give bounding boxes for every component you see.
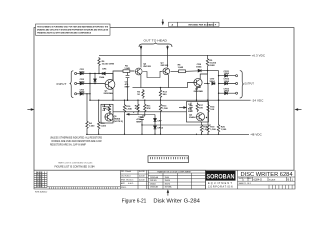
- diode CR9: [212, 82, 215, 85]
- svg-text:2N1305: 2N1305: [150, 180, 157, 182]
- wire CR7 CR14 column: [154, 115, 156, 135]
- wire input row1 to collector: [90, 74, 113, 81]
- svg-text:SIZE: SIZE: [239, 178, 244, 180]
- resistor R3: [142, 89, 144, 99]
- label R10 1,500: [101, 123, 107, 128]
- label C5 4700 MMF: [136, 116, 142, 123]
- svg-text:TREATED (NOTE 3) WITH DISCRETI: TREATED (NOTE 3) WITH DISCRETION AND CON…: [37, 31, 91, 34]
- label Q2 2N1305: [143, 64, 151, 69]
- node Q1 emitter rail: [112, 100, 113, 101]
- svg-text:10K: 10K: [106, 109, 110, 111]
- caption Figure 6-21 Disk Writer G-284: [122, 198, 200, 204]
- resistor R10: [98, 121, 100, 131]
- diode CR2: [80, 82, 83, 85]
- wire mid rail E: [142, 124, 211, 126]
- svg-text:2N3054B: 2N3054B: [194, 90, 204, 93]
- resistor R4: [86, 120, 88, 130]
- svg-text:1N64: 1N64: [79, 80, 85, 83]
- resistor R11: [144, 103, 146, 113]
- title block row texts: [239, 178, 294, 186]
- wire input 3: [77, 93, 90, 95]
- svg-text:SHEET 1 OF 1: SHEET 1 OF 1: [239, 183, 252, 185]
- wire Q4 emitter down: [197, 86, 201, 102]
- svg-text:FIGURE LIST IS CONTINUED G-284: FIGURE LIST IS CONTINUED G-284: [55, 166, 96, 169]
- resistor R13: [159, 103, 161, 113]
- signature table: [120, 170, 148, 189]
- wire input 1: [77, 73, 90, 75]
- svg-text:4-8-58: 4-8-58: [139, 176, 144, 178]
- svg-text:-48 VDC: -48 VDC: [250, 133, 262, 137]
- label Q6 2N404: [189, 115, 196, 120]
- parts list block (left): [34, 172, 47, 188]
- zone arrow left (right border): [296, 109, 302, 111]
- label CR12 1N64: [224, 79, 230, 83]
- svg-text:B: B: [288, 178, 290, 182]
- terminal output 2: [236, 82, 238, 84]
- label R19 1,500: [210, 126, 216, 131]
- label C3 .05: [102, 106, 106, 112]
- wire Q4 collector: [200, 74, 207, 79]
- svg-text:1,500: 1,500: [221, 129, 227, 131]
- svg-text:1,500: 1,500: [210, 129, 216, 131]
- node R11 top: [144, 100, 145, 101]
- svg-text:6284-D: 6284-D: [254, 178, 263, 182]
- svg-text:(NOTE 2): (NOTE 2): [114, 121, 124, 123]
- resistor R6: [98, 57, 100, 67]
- wire R5 row: [118, 70, 135, 72]
- brace input: [70, 71, 74, 98]
- svg-text:47K: 47K: [135, 107, 139, 110]
- label Q3 2N1305: [161, 63, 169, 68]
- svg-text:-24 VDC: -24 VDC: [252, 99, 264, 103]
- wire CR7 top tie: [138, 114, 155, 116]
- resistor R9: [206, 58, 208, 68]
- arrow to head line 2: [167, 46, 169, 50]
- node CR15 junctions: [94, 73, 95, 84]
- terminal input F: [75, 82, 77, 84]
- svg-text:MMF: MMF: [188, 111, 194, 113]
- svg-text:2N404: 2N404: [150, 183, 156, 185]
- wire R12 to -24 rail: [160, 88, 162, 101]
- svg-text:2N3054A: 2N3054A: [104, 92, 114, 95]
- title block: [206, 170, 296, 189]
- node output bus junctions: [218, 75, 219, 101]
- svg-text:TRANSISTOR & DIODE COMPLEMENT: TRANSISTOR & DIODE COMPLEMENT: [157, 170, 192, 173]
- capacitor C3: [103, 104, 106, 110]
- resistor R14: [207, 104, 209, 114]
- wire output bus: [218, 71, 220, 101]
- wire R9 top to rail: [207, 55, 209, 57]
- label CR1 1N64: [79, 69, 85, 73]
- label R17 10K: [199, 105, 204, 110]
- one-shot box Q5: [101, 104, 113, 123]
- resistor R5 (box): [123, 70, 130, 73]
- wire CR15 column: [94, 74, 96, 84]
- resistor R12: [159, 89, 161, 99]
- resistor R2: [137, 103, 139, 113]
- node R14 top: [207, 100, 208, 136]
- svg-text:1N64: 1N64: [224, 80, 230, 83]
- svg-text:OUTPUT: OUTPUT: [244, 82, 254, 86]
- svg-text:APP.: APP.: [121, 182, 126, 185]
- resistor R7: [108, 104, 110, 114]
- node input bus junctions: [89, 73, 90, 101]
- wire Q3 emitter: [168, 75, 170, 88]
- svg-text:4-8-58: 4-8-58: [139, 179, 144, 181]
- zone arrow down (top): [162, 19, 164, 24]
- label R9 10,000 OHM: [209, 60, 216, 67]
- wire R11 top: [142, 100, 145, 116]
- node emitter rail junction: [160, 87, 161, 88]
- label Q5 2N404: [114, 116, 124, 123]
- svg-text:1N456: 1N456: [165, 180, 171, 182]
- diode CR6 (points left): [102, 72, 105, 75]
- svg-text:Disk Writer G-284: Disk Writer G-284: [153, 198, 200, 204]
- svg-text:PARTS LIST IS CONTINUED ON G-2: PARTS LIST IS CONTINUED ON G-285: [58, 161, 93, 164]
- label R20 1,500: [221, 126, 227, 131]
- wire R10 column: [98, 100, 100, 134]
- svg-text:MMF: MMF: [125, 86, 131, 88]
- capacitor C5: [140, 116, 144, 134]
- resistor R20: [217, 124, 219, 134]
- svg-text:2N3054A: 2N3054A: [150, 176, 159, 179]
- svg-text:1N64: 1N64: [196, 65, 202, 68]
- label R7 10K: [106, 107, 110, 112]
- svg-text:ENG. W.Olsen: ENG. W.Olsen: [121, 179, 133, 181]
- connector strip: [148, 156, 189, 163]
- revision table: [169, 22, 220, 26]
- label equipment corporation: [208, 182, 233, 188]
- label R8 1,845: [178, 65, 184, 70]
- transistor Q1: [105, 80, 115, 90]
- svg-text:PROJ.: PROJ.: [121, 187, 127, 189]
- svg-text:OHM: OHM: [209, 65, 214, 67]
- resistor R8 (box): [179, 70, 186, 73]
- node R6 junction: [98, 73, 99, 74]
- one-shot box Q6: [187, 102, 209, 123]
- terminal output 1: [236, 75, 238, 77]
- node R13 ends: [160, 100, 161, 136]
- svg-text:1N64: 1N64: [224, 90, 230, 93]
- label CR2 1N64: [79, 79, 85, 83]
- svg-text:NTS 6284-D: NTS 6284-D: [35, 192, 48, 194]
- node -48 rail junctions: [86, 134, 202, 135]
- label CR3 1N64: [79, 89, 85, 93]
- transistor Q2: [135, 68, 142, 75]
- svg-text:+6.3 VDC: +6.3 VDC: [252, 54, 265, 58]
- svg-text:2N404: 2N404: [189, 116, 196, 119]
- svg-text:4-6-58: 4-6-58: [139, 171, 144, 173]
- capacitor C6: [189, 103, 192, 111]
- svg-text:2N1305: 2N1305: [161, 65, 169, 67]
- label R6 10,000 OHM: [102, 61, 115, 66]
- label CR9 1N64: [209, 78, 215, 83]
- svg-text:CR7: CR7: [157, 120, 162, 122]
- wire R9 bottom junction: [208, 67, 219, 100]
- node C5 bottom: [141, 124, 142, 125]
- svg-text:OUT TO HEAD: OUT TO HEAD: [144, 38, 168, 42]
- svg-text:1,845: 1,845: [126, 108, 132, 111]
- wire input bus: [89, 74, 91, 101]
- svg-text:DRAWING AND CIRCUITS IT SHOWS: DRAWING AND CIRCUITS IT SHOWS ARE PROPRI…: [37, 28, 108, 31]
- svg-text:1,500: 1,500: [162, 108, 168, 110]
- wire head line 1 down to Q2 collector: [140, 49, 142, 68]
- svg-text:SOROBAN: SOROBAN: [207, 174, 235, 181]
- svg-text:1N64: 1N64: [79, 70, 85, 73]
- notes block: [50, 136, 102, 146]
- wire C2 drop: [127, 72, 129, 100]
- terminal input J: [75, 72, 77, 74]
- svg-text:H 6341: H 6341: [37, 186, 43, 188]
- arrow into Q6 box: [179, 107, 186, 109]
- node Q6 right junction: [206, 117, 207, 118]
- label R3 1K: [137, 91, 141, 96]
- svg-text:CK. R.Best: CK. R.Best: [121, 175, 131, 178]
- title strip outline: [34, 170, 295, 189]
- node C2 junction: [127, 100, 128, 101]
- diode CR15: [94, 79, 97, 82]
- label Q4 2N3054B: [194, 87, 204, 93]
- svg-text:2N3054B: 2N3054B: [150, 187, 159, 189]
- transistor Q3: [163, 68, 170, 75]
- svg-text:CORPORATION: CORPORATION: [208, 185, 233, 188]
- label C2 470 MMF: [125, 81, 131, 88]
- svg-text:K.H.O.: K.H.O.: [128, 183, 134, 185]
- label CR13 1N64: [224, 88, 230, 92]
- label R2 47K: [135, 106, 139, 111]
- svg-text:10K: 10K: [210, 109, 214, 111]
- svg-text:1N64: 1N64: [79, 91, 85, 94]
- wire Q4 base from emitter rail: [188, 83, 195, 88]
- wire Q1 emitter down: [112, 88, 113, 100]
- label R11 47K: [147, 106, 152, 111]
- wire R6 bottom to input line: [98, 67, 100, 74]
- svg-text:1N270: 1N270: [165, 183, 171, 185]
- zone arrow up (bottom): [167, 190, 169, 195]
- wire emitter rail: [133, 87, 188, 89]
- svg-text:CR6: CR6: [102, 68, 107, 70]
- wire Q3 output row: [171, 70, 208, 73]
- svg-text:2N1305: 2N1305: [143, 66, 151, 68]
- tick scale row bottom left: [47, 187, 120, 189]
- svg-text:1K: 1K: [137, 94, 140, 96]
- wire -24 VDC rail: [90, 99, 251, 101]
- zone arrow right (left border): [27, 109, 33, 111]
- svg-text:1N758A: 1N758A: [165, 186, 173, 189]
- wire output row2: [219, 83, 236, 85]
- diode CR7: [154, 119, 157, 122]
- diode CR3: [80, 92, 83, 95]
- diode CR8: [198, 69, 201, 72]
- label R16 1,845: [126, 106, 132, 111]
- border frame of schematic sheet: [34, 28, 294, 171]
- resistor R19: [207, 124, 209, 134]
- label CR11 1N64: [224, 71, 230, 75]
- transistor Q4: [194, 78, 202, 86]
- wire R18: [201, 122, 203, 134]
- wire R2 column: [137, 100, 139, 114]
- resistor R18: [200, 124, 202, 134]
- svg-text:SCALE: SCALE: [269, 179, 276, 182]
- label Q1 2N3054A: [104, 90, 114, 95]
- svg-text:1N64: 1N64: [165, 177, 170, 179]
- svg-text:MMF: MMF: [136, 121, 142, 123]
- wire Q1 collector top: [112, 71, 118, 81]
- svg-text:1,845: 1,845: [178, 66, 184, 69]
- arrow into Q5 box: [127, 113, 139, 115]
- wire mid rail D: [113, 111, 187, 113]
- terminal output 3: [236, 92, 238, 94]
- svg-text:NO.: NO.: [249, 178, 253, 180]
- svg-text:10,000 OHM: 10,000 OHM: [102, 64, 115, 66]
- transistor Q5: [105, 113, 113, 121]
- diode CR11: [225, 74, 228, 77]
- brace output: [240, 71, 244, 98]
- wire output row1: [219, 75, 236, 77]
- wire input 2: [77, 83, 105, 85]
- node R10 top: [98, 100, 99, 101]
- svg-text:47K: 47K: [147, 107, 151, 110]
- svg-text:INPUT: INPUT: [57, 82, 67, 86]
- node R16 top: [124, 100, 125, 101]
- arrow to head line 1: [140, 46, 142, 50]
- wire R4 column: [86, 94, 88, 135]
- note box (proprietary notice): [36, 24, 111, 35]
- svg-text:RESISTORS ARE 5%, CAP IN MMF: RESISTORS ARE 5%, CAP IN MMF: [50, 143, 87, 146]
- node R4 top: [86, 93, 87, 94]
- svg-text:1,500: 1,500: [101, 126, 107, 128]
- diode CR13: [225, 92, 228, 95]
- label C6 840 MMF: [188, 104, 194, 113]
- wire -48 VDC rail: [86, 133, 249, 135]
- wire output row3: [219, 92, 236, 94]
- label R12 680: [163, 91, 168, 96]
- terminal input R: [75, 93, 77, 95]
- diode CR1: [80, 72, 83, 75]
- label R5 1,845: [124, 65, 130, 70]
- wire Q2 emitter: [140, 75, 142, 88]
- brace under OUT TO HEAD: [139, 43, 172, 48]
- svg-text:REVISED PER ECN 1256: REVISED PER ECN 1256: [189, 25, 215, 27]
- diode CR12: [225, 82, 228, 85]
- resistor R17: [196, 103, 198, 113]
- svg-text:10K: 10K: [199, 108, 203, 110]
- node R9 junction: [207, 70, 208, 71]
- wire R14 R19 chain: [207, 100, 209, 134]
- label R18 1,500: [203, 126, 209, 131]
- wire cross-couple Q2 Q3: [143, 71, 162, 77]
- svg-text:1,845: 1,845: [124, 67, 130, 70]
- svg-text:1N64: 1N64: [209, 80, 215, 83]
- svg-text:DR. J.Smith: DR. J.Smith: [121, 170, 131, 173]
- node R20 ends: [218, 100, 219, 136]
- label R14 10K: [210, 105, 215, 111]
- transistor and diode complement chart: [148, 170, 205, 189]
- label CR8 1N64: [196, 64, 202, 69]
- logo block: [206, 171, 236, 181]
- node R2 top: [137, 100, 138, 101]
- svg-text:Figure 6-21: Figure 6-21: [122, 198, 147, 204]
- label R4 1,500: [89, 122, 95, 128]
- transistor Q6: [196, 113, 204, 121]
- wire R20: [218, 100, 220, 134]
- resistor R16: [123, 104, 125, 114]
- tick scale row bottom right: [269, 185, 292, 189]
- node -24 rail junctions: [127, 100, 197, 101]
- label R13 1,500: [162, 106, 168, 111]
- svg-text:1N64: 1N64: [99, 76, 105, 79]
- wire head line 2 down to Q3 collector: [167, 49, 169, 67]
- svg-text:1,500: 1,500: [89, 125, 95, 127]
- capacitor C2: [126, 75, 130, 77]
- svg-text:THIS SCHEMATIC IS FURNISHED ON: THIS SCHEMATIC IS FURNISHED ONLY FOR TES…: [37, 25, 108, 28]
- diode CR14: [154, 126, 157, 129]
- svg-text:1N64: 1N64: [224, 72, 230, 75]
- wire +6.3 VDC top rail: [99, 54, 251, 56]
- wire Q4 to output diode row: [204, 83, 210, 85]
- wire R13: [160, 100, 162, 134]
- wire R16: [124, 100, 126, 134]
